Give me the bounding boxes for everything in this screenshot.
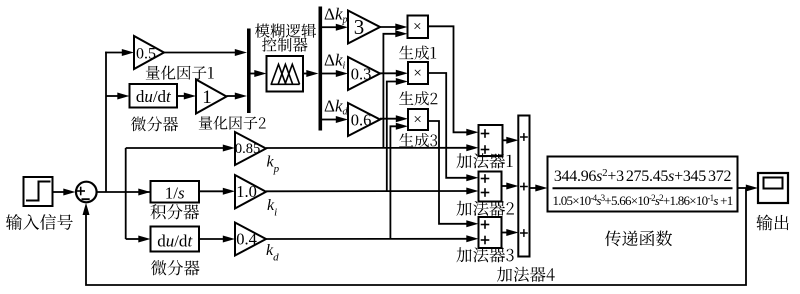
label Δk_d (324, 97, 348, 118)
label 微分器 top (131, 117, 178, 132)
adder A2 加法器2 (479, 172, 502, 202)
wire P2 out to adder A2 (428, 73, 479, 181)
label 输入信号 (6, 214, 73, 230)
integrator block 1/s (151, 181, 200, 203)
svg-text:×: × (413, 65, 421, 81)
svg-text:1/s: 1/s (165, 184, 185, 203)
label 加法器3 (456, 247, 513, 262)
label 生成2 (399, 91, 437, 105)
gain 0.3 (348, 57, 380, 90)
adder A3 加法器3 (479, 217, 502, 248)
product block P3 生成3 (408, 109, 428, 130)
input step source 输入信号 (24, 177, 53, 206)
svg-text:0.3: 0.3 (351, 65, 372, 84)
svg-text:0.85: 0.85 (235, 141, 260, 157)
wire sum to integrator (e line) (97, 189, 153, 196)
label 加法器4 (497, 267, 555, 282)
wire integrator to gain 1.0 (199, 188, 235, 195)
wire gain 3 to product P1 (380, 24, 408, 31)
scope block 输出 (758, 173, 788, 203)
wire e branch vertical x106 (105, 52, 107, 192)
product block P2 生成2 (408, 62, 428, 84)
feedback wire (83, 188, 747, 285)
wire gain 0.3 to product P2 (380, 70, 408, 77)
svg-text:1: 1 (202, 87, 212, 108)
label 积分器 (150, 204, 199, 219)
gain 1 量化因子2 (196, 80, 227, 114)
label 传递函数 (605, 231, 672, 247)
svg-text:3: 3 (354, 15, 365, 39)
svg-text:×: × (413, 19, 421, 35)
label 量化因子2 (199, 116, 266, 130)
wire kp line to adder A1 (266, 144, 479, 151)
label 生成1 (399, 45, 436, 59)
label 模糊逻辑 (255, 23, 316, 37)
svg-text:0.6: 0.6 (351, 111, 372, 130)
wire e branch vertical x125.7 (125, 148, 127, 239)
gain 1.0 ki (235, 175, 266, 209)
demux D1 (319, 7, 323, 131)
wire transfer function to scope (738, 185, 759, 192)
wire A1 to A4 (503, 137, 519, 144)
wire to gain 0.5 (105, 49, 134, 56)
label k_p (267, 154, 280, 176)
wire kd line to adder A3 (266, 235, 479, 242)
wire step to sum (53, 189, 76, 196)
adder A1 加法器1 (479, 125, 503, 156)
wire mux to fuzzy controller (251, 70, 267, 77)
label 生成3 (399, 133, 437, 147)
svg-text:du/dt: du/dt (157, 232, 193, 251)
svg-text:Δkp: Δkp (324, 5, 347, 26)
wire A4 to transfer function (530, 185, 548, 192)
fuzzy logic controller U1 (267, 56, 304, 92)
sum junction S1 (76, 182, 97, 203)
label Δk_i (324, 51, 345, 72)
product block P1 生成1 (408, 16, 429, 39)
transfer function block (548, 157, 738, 212)
gain 0.85 kp (235, 132, 266, 165)
wire demux to gain 3 (322, 24, 348, 31)
mux M1 (247, 29, 251, 114)
wire to derivative top (106, 93, 130, 100)
wire A3 to A4 (502, 229, 519, 236)
svg-text:0.5: 0.5 (136, 46, 156, 63)
svg-text:344.96s2+3275.45s+345372: 344.96s2+3275.45s+345372 (554, 167, 732, 185)
label Δk_p (324, 5, 347, 26)
svg-text:kp: kp (267, 154, 280, 176)
gain 3 (delta kp scale) (348, 11, 380, 44)
label 输出 (756, 215, 788, 231)
svg-text:ki: ki (267, 197, 277, 219)
wire ki line to adder A2 (266, 188, 479, 195)
gain 0.5 量化因子1 (134, 36, 164, 69)
wire ki tap to P2 in2 (387, 78, 408, 191)
label k_i (267, 197, 277, 219)
svg-text:1.0: 1.0 (236, 182, 257, 201)
wire P1 out to adder A1 (428, 26, 479, 136)
wire A2 to A4 (502, 183, 519, 190)
wire gain 0.5 to mux (164, 49, 247, 56)
wire derivative to gain 0.4 (199, 236, 235, 243)
svg-text:0.4: 0.4 (236, 230, 257, 249)
svg-text:du/dt: du/dt (136, 87, 172, 106)
derivative block du/dt top (130, 84, 178, 108)
label k_d (266, 242, 279, 264)
wire to gain 0.85 (126, 145, 235, 152)
label 控制器 (262, 37, 308, 51)
wire demux to gain 0.3 (322, 70, 348, 77)
gain 0.4 kd (235, 223, 266, 256)
wire gain 0.6 to product P3 (380, 115, 408, 122)
adder A4 加法器4 (518, 116, 529, 257)
wire kp tap to P1 in2 (383, 30, 407, 148)
label 加法器2 (456, 201, 513, 216)
wire gain 1 to mux (227, 93, 248, 100)
label 微分器 bottom (151, 260, 200, 275)
derivative block du/dt bottom (151, 227, 200, 252)
svg-text:Δkd: Δkd (324, 97, 348, 118)
svg-text:kd: kd (266, 242, 279, 264)
svg-text:Δki: Δki (324, 51, 345, 72)
wire demux to gain 0.6 (322, 116, 348, 123)
label 加法器1 (456, 153, 512, 168)
svg-text:1.05×10-4s3+5.66×10-2s2+1.86×1: 1.05×10-4s3+5.66×10-2s2+1.86×10-1s +1 (553, 193, 733, 208)
wire fuzzy to demux (303, 70, 319, 77)
wire kd tap to P3 in2 (390, 123, 408, 239)
wire to derivative bottom (126, 236, 151, 243)
gain 0.6 (348, 103, 380, 136)
svg-text:×: × (413, 112, 421, 128)
wire derivative to gain 1 (177, 93, 196, 100)
label 量化因子1 (146, 65, 214, 79)
wire P3 out to adder A3 (428, 121, 479, 227)
